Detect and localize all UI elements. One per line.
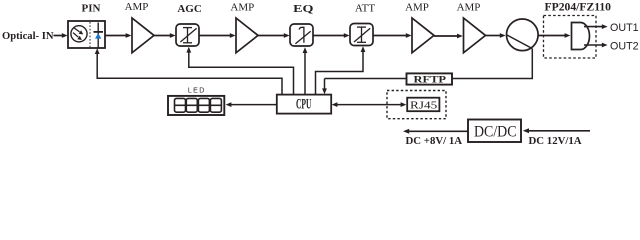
svg-text:DC 12V/1A: DC 12V/1A	[529, 135, 582, 147]
wire CPU to LED	[226, 102, 277, 107]
amplifier AMP4 triangle	[464, 18, 486, 53]
svg-text:AMP: AMP	[457, 2, 481, 14]
svg-text:AMP: AMP	[125, 1, 149, 13]
directional coupler (splitter) circle	[507, 19, 539, 51]
wire OUT2	[584, 43, 608, 48]
CPU U3 box	[277, 95, 331, 114]
wire CPU to PIN bias	[95, 48, 282, 94]
LED digit cells	[175, 98, 222, 112]
svg-text:ATT: ATT	[355, 2, 375, 14]
svg-text:LED: LED	[188, 88, 206, 95]
wire splitter tap to RFTP to CPU	[322, 49, 532, 94]
wire CPU to EQ control	[303, 47, 308, 94]
coupler diagonal tap	[507, 35, 533, 49]
svg-text:OUT2: OUT2	[610, 41, 639, 53]
amplifier AMP1 triangle	[132, 18, 154, 53]
AGC symbol	[180, 28, 196, 43]
svg-text:Optical- IN: Optical- IN	[2, 30, 54, 42]
wire CPU to RJ45 (double arrow)	[332, 102, 407, 107]
dashed module box	[544, 16, 597, 59]
LED display box	[168, 96, 224, 115]
wire AMP1 to AGC	[154, 33, 176, 38]
svg-text:RFTP: RFTP	[414, 75, 447, 86]
svg-text:AMP: AMP	[405, 2, 429, 14]
svg-text:FP204/FZ110: FP204/FZ110	[545, 2, 612, 14]
EQ equalizer box	[290, 24, 313, 46]
wire ATT to AMP3	[373, 33, 412, 38]
wire AMP3 to AMP4	[434, 34, 463, 39]
wire CPU to AGC control	[186, 47, 293, 95]
wire AMP2 to EQ	[258, 33, 290, 38]
svg-text:RJ45: RJ45	[410, 100, 438, 112]
DC/DC converter box	[468, 120, 521, 143]
wire input arrow	[54, 33, 68, 38]
RJ45 port box	[407, 98, 439, 112]
RJ45 dashed box	[387, 91, 446, 119]
svg-text:AGC: AGC	[177, 3, 202, 15]
wire DC output (+8V)	[403, 129, 468, 134]
wire AMP4 to splitter	[486, 33, 506, 38]
wire PIN to AMP1	[105, 33, 131, 38]
amplifier AMP3 triangle	[412, 18, 434, 53]
combiner U2 D-shape	[572, 23, 590, 50]
svg-text:AMP: AMP	[230, 1, 254, 13]
svg-text:OUT1: OUT1	[610, 22, 639, 34]
photodiode circle with incident light arrows	[71, 26, 87, 42]
AGC variable attenuator box	[176, 24, 199, 46]
ATT symbol	[354, 27, 370, 42]
svg-text:PIN: PIN	[82, 3, 101, 15]
svg-text:EQ: EQ	[293, 3, 314, 15]
wire OUT1	[584, 24, 608, 29]
diode D1 with blue anode arrow	[94, 23, 104, 48]
EQ symbol	[295, 27, 310, 43]
wire AGC to AMP2	[199, 33, 236, 38]
test point RFTP box	[407, 73, 453, 84]
svg-text:DC/DC: DC/DC	[474, 124, 517, 141]
wire DC input (12V)	[523, 128, 590, 133]
photodiode module U1 (PIN) box	[68, 21, 105, 48]
svg-text:DC +8V/ 1A: DC +8V/ 1A	[406, 135, 463, 147]
ATT attenuator box	[350, 24, 373, 46]
svg-text:CPU: CPU	[296, 97, 312, 113]
wire EQ to ATT	[313, 33, 350, 38]
amplifier AMP2 triangle	[236, 18, 258, 53]
dotted divider inside PIN	[89, 22, 91, 47]
wire splitter to output module	[538, 33, 570, 38]
wire CPU to ATT control	[316, 46, 366, 94]
